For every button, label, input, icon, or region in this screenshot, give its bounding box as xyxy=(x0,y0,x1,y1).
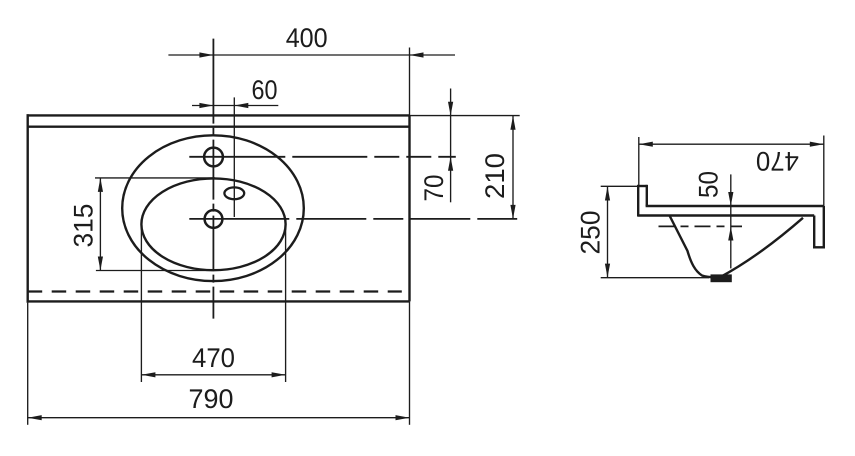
faucet hole xyxy=(204,148,223,167)
basin outer rim ellipse xyxy=(122,135,304,281)
svg-text:250: 250 xyxy=(575,211,605,255)
dimension 210 line xyxy=(512,116,514,219)
drain hole xyxy=(205,210,223,228)
svg-text:790: 790 xyxy=(189,384,234,414)
svg-text:315: 315 xyxy=(69,204,99,248)
dimension 70 line xyxy=(450,89,452,203)
side view rear edge xyxy=(637,185,639,217)
hidden edge dashed line xyxy=(28,290,402,292)
overflow offset extension line xyxy=(233,97,235,217)
dimension 315 extension lines xyxy=(95,177,215,179)
vertical centerline xyxy=(212,39,214,319)
side view front leg foot xyxy=(813,246,825,248)
dimension 315 line xyxy=(99,178,101,271)
dimension 60 line xyxy=(192,105,278,107)
dimension 250 extension lines xyxy=(601,185,639,187)
svg-text:470: 470 xyxy=(756,146,799,176)
side view front leg inner edge xyxy=(813,216,815,248)
dimension 60 arrows xyxy=(199,103,248,108)
svg-text:50: 50 xyxy=(693,171,723,198)
right edge extension below xyxy=(409,301,411,424)
dimension 790 arrows xyxy=(28,415,410,420)
dimension 70 arrows xyxy=(448,102,453,171)
svg-text:470: 470 xyxy=(192,343,235,373)
side view waterline dash-dot xyxy=(659,225,743,227)
dimension 470 line (top view) xyxy=(141,374,285,376)
vanity top outline (top view) xyxy=(27,114,410,302)
dimension 470 (side) extension lines xyxy=(638,137,640,186)
dimension 315 arrows xyxy=(98,178,103,271)
dimension 400 arrows xyxy=(199,52,423,57)
dimension 470 arrows (top view) xyxy=(141,372,285,377)
side view rear step xyxy=(646,185,648,206)
dimension 210 arrows xyxy=(510,116,515,219)
basin inner bowl ellipse xyxy=(141,178,285,270)
side view top surface xyxy=(646,205,824,207)
top edge extension line xyxy=(410,115,520,117)
side view rear mounting lip top xyxy=(638,185,647,187)
overflow hole oval xyxy=(224,187,244,199)
dimension 50 line xyxy=(730,174,732,268)
side view underside xyxy=(638,214,814,216)
dimension 250 line xyxy=(607,187,609,278)
svg-text:60: 60 xyxy=(252,75,278,105)
faucet horizontal centerline xyxy=(189,156,456,158)
dimension 470 line (side) xyxy=(639,143,824,145)
svg-text:70: 70 xyxy=(419,175,449,202)
side view bowl curve xyxy=(670,216,804,278)
svg-text:210: 210 xyxy=(480,153,510,199)
svg-text:400: 400 xyxy=(286,23,328,53)
dimension 400 line xyxy=(168,54,455,56)
dimension 790 line xyxy=(28,417,410,419)
drain horizontal centerline xyxy=(189,218,517,220)
right edge extension above xyxy=(409,48,411,116)
side view front edge xyxy=(823,206,825,247)
dimension 250 arrows xyxy=(605,187,610,278)
dimension 50 arrows xyxy=(728,192,733,241)
dimension 470 arrows (side) xyxy=(639,142,824,147)
dimension 470 extension lines (top view) xyxy=(140,220,142,383)
left edge extension below xyxy=(27,303,29,425)
drain trap (filled) xyxy=(711,274,732,282)
